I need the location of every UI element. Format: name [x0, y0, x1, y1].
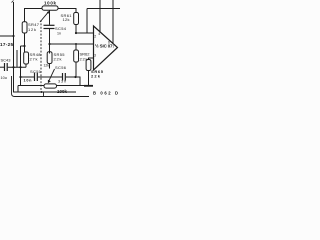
wire SC51 to SC56	[38, 76, 62, 78]
potentiometer 100k bottom	[44, 84, 57, 88]
wire SR47 bottom to jog	[21, 33, 25, 46]
op-amp U half SIC07	[94, 26, 118, 70]
svg-text:33n: 33n	[58, 79, 66, 83]
wire top bus pot to SR61	[58, 9, 76, 13]
wire to input pin 3	[50, 43, 94, 45]
wire SC56 to SR62 node	[66, 77, 80, 86]
wiper arrow of 100k pot	[40, 12, 48, 22]
wire inverting input pin 2	[76, 32, 94, 34]
svg-text:10n: 10n	[24, 79, 33, 83]
svg-text:6: 6	[108, 41, 110, 45]
resistor SR47	[22, 22, 27, 33]
node junction SC43 at x20.5	[19, 66, 21, 68]
wire top bus to pot	[25, 9, 43, 22]
wire supply rail pin 7	[112, 0, 114, 43]
svg-text:SC56: SC56	[55, 65, 67, 70]
svg-text:10u: 10u	[1, 76, 7, 80]
wire bottom bus	[14, 68, 77, 93]
wire input from left edge	[0, 35, 14, 37]
svg-text:22k: 22k	[54, 57, 62, 62]
svg-text:SC54: SC54	[55, 26, 67, 31]
node junction SR62 bottom	[74, 76, 76, 78]
wire feedback from top bus	[86, 9, 88, 34]
wire jog to SR48	[20, 46, 22, 86]
wire supply rail pin 4	[99, 0, 101, 32]
capacitor SC54	[44, 24, 55, 26]
wire SR65 to ground	[88, 71, 90, 86]
wire left vertical input bus	[13, 2, 15, 68]
wire pot wiper to capacitor SC54	[49, 10, 51, 25]
svg-text:SC51: SC51	[30, 69, 42, 74]
wire SC54 to node	[49, 29, 51, 44]
resistor SR62	[75, 44, 77, 50]
node dashed line end dot	[41, 91, 43, 93]
wire SR55 to bottom pot wiper	[49, 64, 51, 69]
node junction at x76	[75, 43, 77, 45]
node junction SC43 at main vertical	[12, 66, 14, 68]
svg-text:12k: 12k	[44, 64, 50, 68]
node junction SR61 bottom	[75, 32, 77, 34]
node junction left input	[12, 35, 14, 37]
svg-text:4: 4	[98, 32, 100, 36]
svg-text:27k: 27k	[30, 57, 38, 62]
svg-text:100k: 100k	[57, 89, 68, 94]
svg-text:1n: 1n	[57, 32, 61, 36]
resistor SR48	[24, 46, 26, 52]
wire SR48 bottom	[25, 64, 27, 67]
wire SR62 bottom to node	[75, 62, 77, 77]
potentiometer 100k top	[42, 6, 58, 10]
svg-text:B 062 D: B 062 D	[93, 91, 118, 96]
wire stub x17	[16, 50, 18, 67]
svg-text:3: 3	[94, 54, 96, 58]
svg-text:½ SIC 07: ½ SIC 07	[95, 43, 113, 48]
svg-text:7: 7	[112, 45, 114, 49]
node junction SC54 chain	[48, 43, 50, 45]
wire dashed end stub	[43, 92, 45, 97]
resistor SR55	[49, 44, 51, 54]
resistor SR61	[74, 13, 79, 25]
svg-text:SC43: SC43	[1, 58, 12, 63]
svg-text:2: 2	[94, 35, 96, 39]
svg-text:17-25: 17-25	[0, 42, 13, 47]
shield enclosure	[12, 76, 90, 97]
mechanical link dashed line	[40, 20, 42, 92]
svg-text:22k: 22k	[91, 74, 101, 79]
svg-text:100k: 100k	[44, 1, 57, 6]
wire SR61 bottom	[75, 25, 77, 34]
svg-text:12k: 12k	[28, 27, 36, 32]
svg-text:12k: 12k	[63, 17, 70, 22]
ground rail lower	[18, 85, 44, 87]
wire top tick	[12, 1, 14, 3]
arrowhead bottom pot wiper	[48, 80, 51, 84]
ground bar	[84, 85, 93, 87]
node junction SR47 bottom	[23, 45, 25, 47]
wire top bus right segment	[87, 8, 120, 10]
resistor SR65	[89, 58, 94, 60]
